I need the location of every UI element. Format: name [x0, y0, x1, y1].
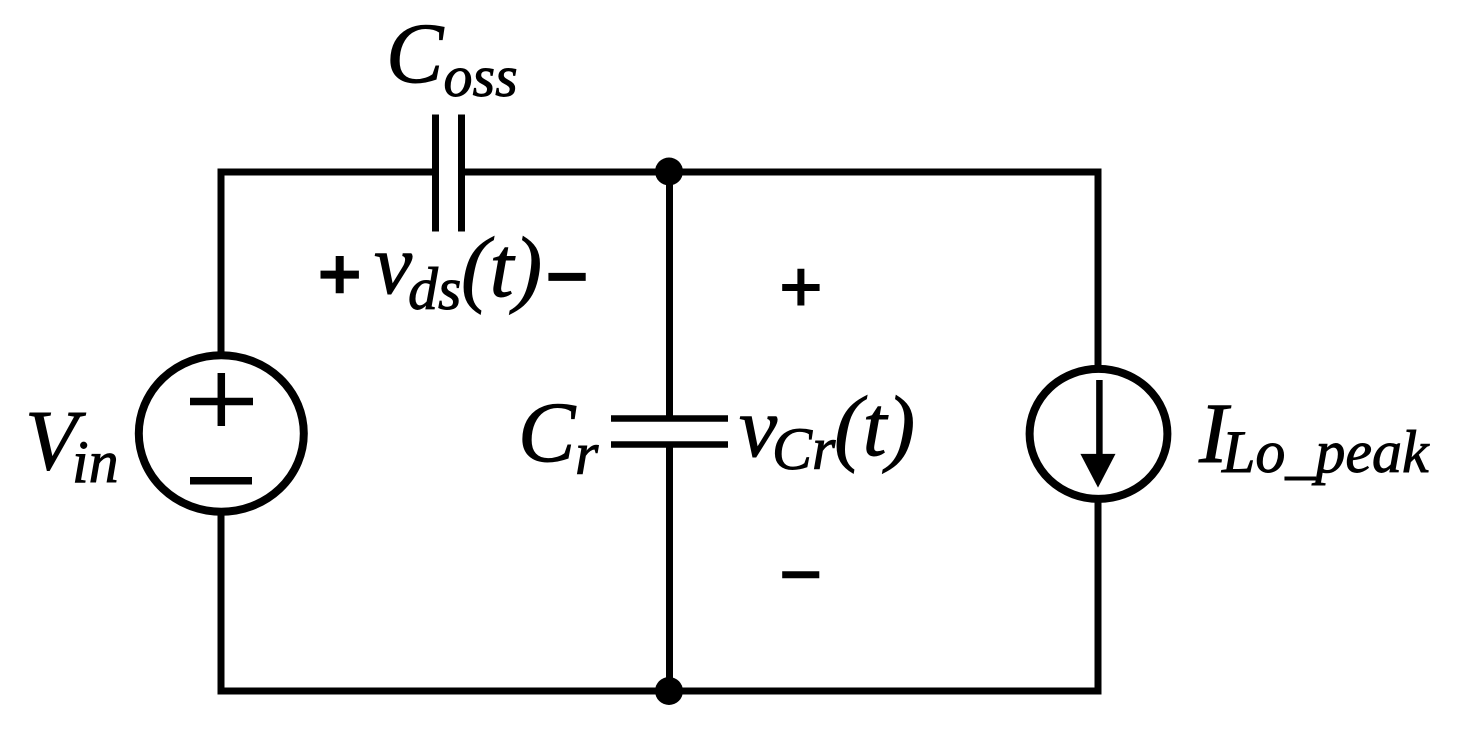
Vin minus sign: [190, 477, 252, 485]
label + (Cr plus): [782, 269, 819, 306]
svg-text:Cr: Cr: [772, 416, 836, 482]
label - (vds minus): [548, 273, 585, 281]
label Coss: [386, 5, 518, 109]
wire middle lower (Cr bottom plate to node C): [666, 445, 673, 691]
svg-text:(t): (t): [834, 378, 915, 474]
capacitor Coss: [436, 115, 462, 232]
svg-text:(t): (t): [461, 219, 542, 315]
current source arrow: [1080, 380, 1115, 488]
wire top-left (node A to Coss left plate): [218, 169, 436, 176]
svg-text:Lo_peak: Lo_peak: [1221, 419, 1430, 485]
label + (vds plus): [321, 256, 359, 293]
svg-text:r: r: [575, 421, 599, 487]
svg-text:ds: ds: [408, 256, 461, 322]
label - (Cr minus): [782, 571, 819, 578]
wire bottom (left corner to right corner through node C): [218, 688, 1102, 695]
wire left upper (top-left corner to Vin top): [218, 169, 225, 353]
node B junction dot (top middle): [655, 158, 683, 186]
svg-text:C: C: [386, 5, 445, 101]
voltage source Vin circle: [139, 355, 304, 511]
svg-text:in: in: [72, 429, 119, 495]
wire middle upper (node B to Cr top plate): [666, 172, 673, 418]
wire left lower (Vin bottom to bottom-left corner): [218, 515, 225, 695]
label Vin: [25, 392, 119, 495]
wire right upper (top-right corner to current source top): [1095, 169, 1102, 367]
Vin plus sign: [190, 373, 253, 426]
capacitor Cr: [611, 419, 728, 445]
label vds(t): [374, 216, 542, 322]
label Cr: [518, 384, 599, 487]
label vCr(t): [739, 378, 915, 482]
wire right lower (current source bottom to bottom-right corner): [1095, 502, 1102, 695]
current source ILo_peak circle: [1030, 369, 1168, 499]
label ILo_peak: [1198, 385, 1430, 485]
svg-text:oss: oss: [444, 44, 518, 109]
wire top-right (Coss right plate through node B to right corner): [462, 169, 1102, 176]
node C junction dot (bottom middle): [655, 677, 683, 705]
svg-text:C: C: [518, 384, 577, 480]
